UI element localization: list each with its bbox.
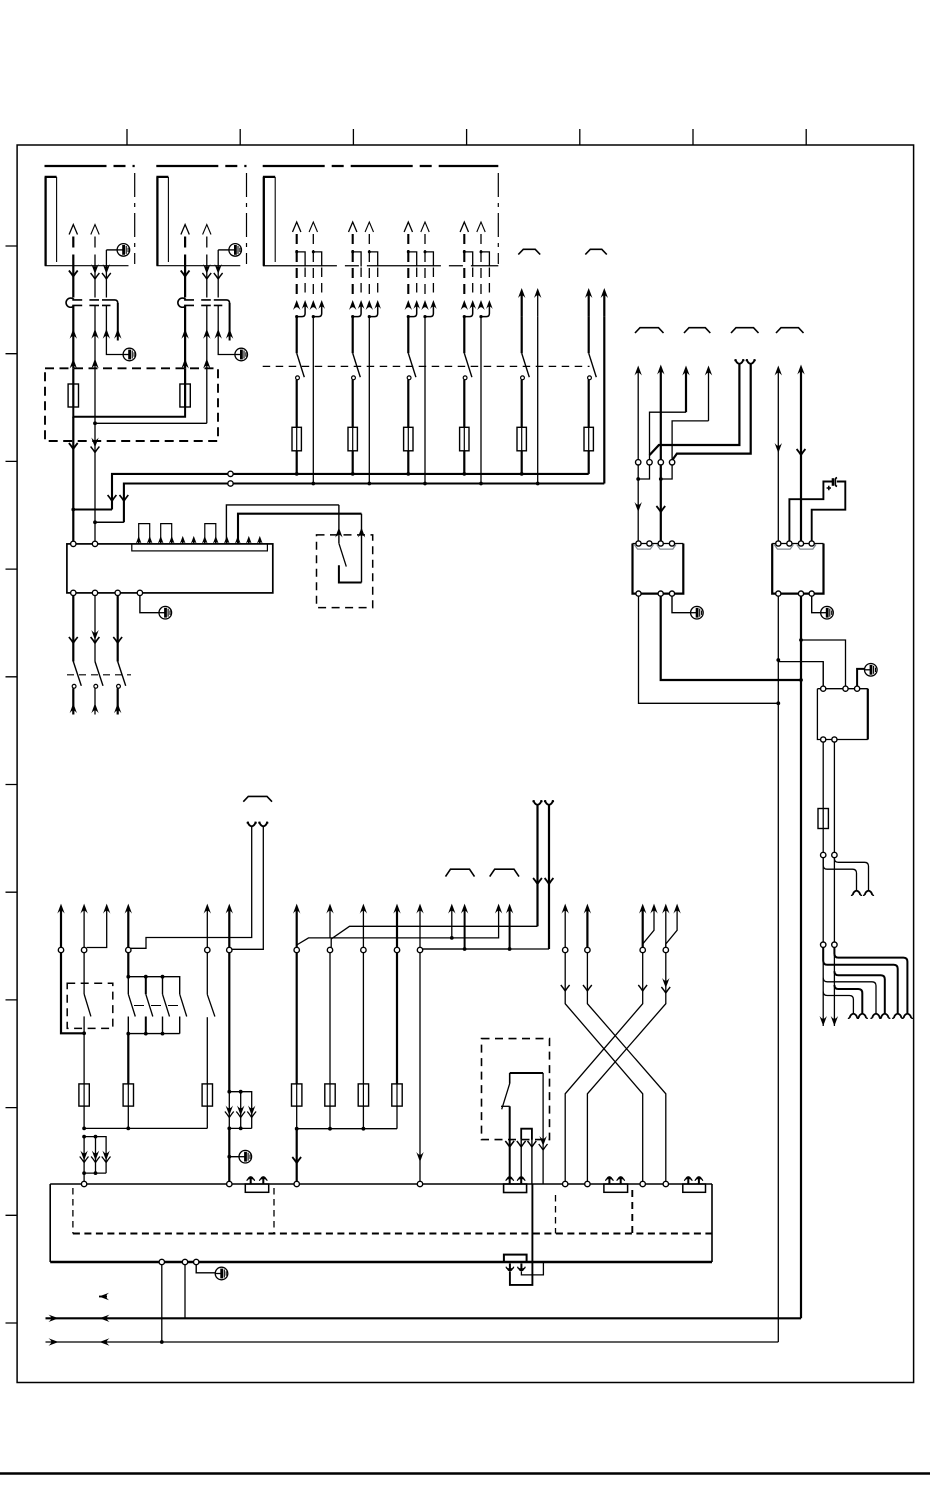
long wire corner to bottom bus thin bbox=[46, 1341, 779, 1343]
lamp feed wire dashed arrow 2 box 2 bbox=[203, 225, 211, 235]
crossover incoming arrow at x=565.2 bbox=[562, 904, 569, 914]
triple diode pack left bbox=[84, 1137, 106, 1174]
headlamp unit box 1 dash-dot outline bbox=[45, 165, 135, 167]
ECU top pin circles bbox=[81, 1181, 86, 1186]
bus link to junction block wire A bbox=[73, 509, 112, 511]
wire switch to fuse group 6 bbox=[588, 380, 590, 428]
fuse on wire 296 bbox=[292, 1084, 302, 1106]
wire 363 down to fuse bbox=[362, 953, 364, 1084]
fanout branch 1 bbox=[834, 947, 907, 1013]
wire 397 down to fuse bbox=[396, 953, 398, 1084]
incoming wire arrow at x=397 bbox=[393, 904, 400, 914]
ground G9 bbox=[239, 1150, 252, 1163]
relay R1 top pin circles bbox=[636, 541, 641, 546]
junction block top pin circles bbox=[71, 541, 76, 546]
output switch pole 3 bbox=[117, 596, 119, 662]
incoming wire arrow at x=128.3 bbox=[125, 904, 132, 914]
wire to relay2 pin3 bbox=[797, 365, 804, 375]
group 1 connector merge arrows bbox=[293, 300, 300, 310]
stub arrow 464 bbox=[464, 910, 466, 949]
wire switch to fuse group 1 bbox=[296, 380, 298, 428]
dimmer switch wires with arrows bbox=[338, 505, 340, 543]
pass-through wire loop 1 bbox=[510, 1184, 533, 1285]
relay R2 top pin circles bbox=[776, 541, 781, 546]
wire fuse to bus group 1 bbox=[296, 451, 298, 474]
ground G8 bbox=[865, 664, 878, 677]
relay1 feed wire a4 jog bbox=[705, 366, 712, 376]
dimmer dashed switch box bbox=[317, 535, 373, 608]
relay R1 bottom pin circles bbox=[636, 591, 641, 596]
fanout branch 2 bbox=[823, 947, 898, 1013]
relay R1 output wire thin bbox=[639, 596, 779, 703]
incoming wire arrow at x=420 bbox=[416, 904, 423, 914]
middle left connector circles bbox=[58, 947, 63, 952]
daytime relay switch output wire bbox=[509, 1106, 511, 1177]
lighting switch S4 bbox=[463, 317, 465, 354]
connector bracket relay pair 1 bbox=[635, 328, 664, 333]
wires with up arrows below connector box 1 bbox=[72, 305, 74, 368]
fuse on wire 128 bbox=[123, 1084, 133, 1106]
crossover wire 3 bbox=[565, 953, 643, 1181]
fork wire pair brackets middle bbox=[446, 869, 475, 876]
multi switch coupling ticks bbox=[134, 1005, 178, 1007]
fanout branch 5 bbox=[834, 985, 862, 1013]
crossover incoming arrow at x=665.8 bbox=[662, 904, 669, 914]
daytime relay right wire bbox=[542, 1073, 544, 1184]
fuse box dashed outline bbox=[45, 368, 218, 441]
ground G2 lower box 2 bbox=[235, 348, 248, 361]
relay1 feed wire a3 jog bbox=[682, 366, 689, 376]
fanout branch 6 bbox=[823, 992, 853, 1014]
right wire to lower bus group 2 bbox=[368, 317, 370, 484]
right column wire 2 bbox=[833, 742, 835, 852]
wire L2 fusebox to junction block bbox=[94, 441, 96, 541]
relay R1 output wire thick bbox=[661, 596, 801, 680]
wires with up arrows below connector box 2 bbox=[184, 305, 186, 368]
fork wire Y2 middle left bbox=[259, 822, 267, 827]
crossover wire 2 bbox=[587, 953, 665, 1181]
triple switch coupling dashed line bbox=[67, 674, 131, 676]
wire exits below box 2 with arrows bbox=[184, 266, 186, 298]
box3 group 1 dashed wires below box bbox=[296, 252, 298, 298]
ECU pin connector block 4 bbox=[684, 1176, 692, 1184]
bottom wire arrows thin bbox=[49, 1338, 59, 1345]
lamp feed wire dashed arrow 1 box 2 bbox=[181, 225, 189, 235]
ground wire to lower ground box 1 bbox=[106, 305, 123, 354]
ground G1 lower box 1 bbox=[123, 348, 136, 361]
right column end arrows bbox=[822, 947, 824, 1026]
wire to relay2 pin1 bbox=[775, 366, 782, 376]
subunit bottom pin circles bbox=[821, 737, 826, 742]
box3 group 3 dashed wires below box bbox=[407, 252, 409, 298]
wire 84 to control unit bbox=[83, 1173, 85, 1184]
left fuse output bus bbox=[84, 1106, 207, 1128]
wire to relay1 pin1 bbox=[637, 465, 639, 544]
ECU bottom connector block bbox=[504, 1255, 527, 1262]
fuse on wire 330 bbox=[325, 1084, 335, 1106]
fuse group 1 bbox=[292, 427, 301, 451]
headlamp unit box 3 dash-dot outline bbox=[263, 165, 499, 167]
bulb housing bar box 1 bbox=[45, 177, 57, 266]
incoming wire arrow at x=84.1 bbox=[80, 904, 87, 914]
wire 128.3 to multi switch bbox=[127, 953, 129, 977]
ground wire drop box 2 bbox=[217, 250, 219, 266]
pass-through wire loop 2 bbox=[521, 1262, 543, 1275]
ECU bottom pin circles bbox=[159, 1259, 164, 1264]
jog wire YA to circle 330 bbox=[331, 926, 537, 947]
ECU pin connector block 3 bbox=[606, 1176, 614, 1184]
lighting switch S1 bbox=[296, 317, 298, 354]
incoming wire arrow at x=229.3 bbox=[226, 904, 233, 914]
group 4 connector merge arrows bbox=[461, 300, 468, 310]
relay R2 bottom pin circles bbox=[776, 591, 781, 596]
lighting switch S5 bbox=[521, 317, 523, 354]
connector bracket middle left bbox=[243, 796, 272, 801]
inline connector symbol box 1 bbox=[66, 298, 74, 307]
right wire to lower bus group 1 bbox=[312, 317, 314, 484]
wire fuse to bus group 3 bbox=[407, 451, 409, 474]
fork wire YA middle bbox=[534, 800, 542, 805]
lamp feed wire dashed arrow 1 box 1 bbox=[69, 225, 77, 235]
wire switch to fuse group 2 bbox=[352, 380, 354, 428]
wire L1 fusebox to junction block bbox=[72, 441, 74, 541]
ground G6 bbox=[691, 606, 704, 619]
fork wire Y1 middle left bbox=[248, 822, 256, 827]
junction block bottom pin circles bbox=[71, 590, 76, 595]
connector branch stub wire box 1 bbox=[117, 303, 119, 341]
wire to subunit pin2 bbox=[801, 640, 846, 689]
multi contact switch poles bbox=[127, 977, 129, 995]
wire exits below box 1 with arrows bbox=[72, 266, 74, 298]
wire to relay1 pin3 bbox=[660, 465, 662, 544]
fork branch upper right 1 bbox=[834, 858, 868, 890]
crossover wire 1 bbox=[565, 953, 643, 1181]
ground G10 bbox=[215, 1267, 228, 1280]
lighting switch S3 bbox=[407, 317, 409, 354]
headlamp switch wire and lever bbox=[83, 953, 85, 994]
right wire to lower bus group 5 bbox=[537, 317, 539, 484]
right wire to lower bus group 3 bbox=[424, 317, 426, 484]
control unit ECU box bbox=[50, 1183, 712, 1185]
incoming wire arrow at x=330 bbox=[326, 904, 333, 914]
branch wire along y949 with stubs bbox=[423, 948, 510, 950]
wire L1 down through fuse box bbox=[72, 417, 74, 441]
battery B1 symbol bbox=[832, 478, 834, 486]
incoming wire arrow at x=207.3 bbox=[204, 904, 211, 914]
fuse F2 bbox=[184, 368, 186, 384]
inline connector symbol box 2 bbox=[178, 298, 186, 307]
box3 group 4 dashed feed wires with arrows bbox=[460, 222, 468, 232]
wire 420 to control unit bbox=[419, 953, 421, 1184]
bulb housing bar box 2 bbox=[156, 177, 168, 266]
relay1 feed wire a1 bbox=[635, 366, 642, 376]
relay unit R1 box bbox=[633, 543, 684, 545]
output switch pole 1 bbox=[72, 596, 74, 662]
right column connector circles mid bbox=[821, 852, 826, 857]
ground G1 upper in box 1 bbox=[106, 249, 117, 251]
lighting switch S2 bbox=[352, 317, 354, 354]
switch coupling dashed line bbox=[263, 365, 590, 367]
right wire to lower bus group 6 bbox=[603, 317, 605, 484]
bus link to junction block wire B bbox=[95, 521, 124, 523]
connector bracket relay pair 2 bbox=[684, 328, 710, 333]
fanout branch 4 bbox=[823, 978, 876, 1013]
relay1 feed wire a2 bbox=[657, 365, 664, 375]
fuse group 2 bbox=[348, 427, 357, 451]
thin wire bus in fuse box bbox=[95, 368, 207, 441]
wire to subunit pin1 bbox=[778, 662, 823, 689]
daytime relay switch lever bbox=[509, 1073, 511, 1084]
ECU pin connector block 1 bbox=[247, 1176, 255, 1184]
box3 group 2 hook branches bbox=[353, 252, 378, 267]
wire 229 to control unit with ground tap bbox=[228, 1128, 230, 1184]
fork branch upper right 2 bbox=[823, 858, 856, 890]
box3 group 2 dashed feed wires with arrows bbox=[349, 222, 357, 232]
wire 330 down to fuse bbox=[329, 953, 331, 1084]
single switch on wire 207.3 bbox=[206, 953, 208, 995]
fork terminal wire f1 to relay connector bbox=[736, 359, 744, 364]
branch wire from circle 296 with stubs bbox=[297, 910, 499, 945]
right column wires to lower connector bbox=[822, 858, 824, 942]
lower supply bus bbox=[124, 484, 604, 523]
wire switch to fuse group 3 bbox=[407, 380, 409, 428]
connector bracket group 5 bbox=[518, 249, 540, 254]
box3 group 1 hook branches bbox=[297, 252, 322, 267]
ground G7 bbox=[821, 606, 834, 619]
fuse output bus wire bbox=[73, 407, 185, 417]
stub arrow 451 bbox=[451, 910, 453, 938]
fuse F1 bbox=[72, 368, 74, 384]
fuse group 3 bbox=[404, 427, 413, 451]
crossover wire 4 bbox=[587, 953, 665, 1181]
ground wire drop box 1 bbox=[105, 250, 107, 266]
crossover branch arrows bbox=[650, 904, 657, 914]
wire from circle 61 to switch line bbox=[61, 953, 84, 1034]
output switch pole 2 bbox=[94, 596, 96, 662]
right column wire 1 with inline fuse bbox=[822, 742, 824, 852]
fuse group 5 bbox=[517, 427, 526, 451]
ECU output wire 2 down bbox=[184, 1265, 186, 1319]
junction block pin staples bbox=[139, 524, 150, 543]
wire switch to fuse group 5 bbox=[521, 380, 523, 428]
left edge tick marks bbox=[6, 246, 18, 1323]
relay R2 ground lead bbox=[812, 596, 821, 613]
ground wire to lower ground box 2 bbox=[218, 305, 235, 354]
ground G5 bbox=[159, 606, 172, 619]
bottom wire arrows thick bbox=[49, 1315, 59, 1322]
box3 group 3 dashed feed wires with arrows bbox=[404, 222, 412, 232]
crossover incoming arrow at x=587.4 bbox=[584, 904, 591, 914]
multi contact switch bus bottom bbox=[128, 1017, 179, 1034]
multi contact switch bus top bbox=[128, 977, 179, 995]
fuse on wire 363 bbox=[358, 1084, 368, 1106]
group 5 feed wires with arrows bbox=[518, 288, 525, 298]
lamp feed wire dashed arrow 2 box 1 bbox=[91, 225, 99, 235]
jog wire YB to circle 420 bbox=[423, 948, 549, 950]
incoming wire arrow at x=61 bbox=[57, 904, 64, 914]
junction block J/B box bbox=[67, 544, 273, 593]
ECU ground lead bbox=[196, 1265, 215, 1273]
long wire from relay R2 thin down right side bbox=[777, 596, 779, 1342]
wire fuse to bus group 6 bbox=[588, 451, 590, 474]
wire switch to fuse group 4 bbox=[463, 380, 465, 428]
relay R1 ground lead bbox=[672, 596, 691, 613]
incoming wire arrow at x=363.4 bbox=[360, 904, 367, 914]
floating continuation arrow bbox=[99, 1293, 109, 1300]
junction block pin arrows bbox=[136, 536, 142, 544]
wire 229.3 down bbox=[228, 953, 230, 1092]
fork wire YB middle bbox=[545, 800, 553, 805]
subunit box bbox=[817, 689, 867, 740]
relay unit R2 box bbox=[772, 543, 823, 545]
fuse on wire 207 bbox=[202, 1084, 212, 1106]
fuse group 6 bbox=[584, 427, 593, 451]
junction block internal connector strip bbox=[132, 544, 268, 551]
box3 group 4 dashed wires below box bbox=[463, 252, 465, 298]
connector bracket group 6 bbox=[585, 249, 607, 254]
subunit ground lead bbox=[857, 669, 865, 689]
relay R1 connector cups bbox=[634, 545, 653, 550]
dimmer switch contact loop bbox=[339, 565, 362, 582]
staple wires down bbox=[520, 1140, 522, 1177]
connector branch stub wire box 2 bbox=[229, 303, 231, 341]
wire fuse to bus group 4 bbox=[463, 451, 465, 474]
top edge tick marks bbox=[127, 129, 806, 145]
bottom separator rule bbox=[0, 1472, 930, 1475]
ECU internal dashed partitions bbox=[73, 1188, 556, 1234]
ECU pin connector block 2 bbox=[506, 1176, 514, 1184]
bus drop arrows bbox=[108, 495, 117, 501]
group 6 feed wires with arrows bbox=[585, 288, 592, 298]
wire 296 to control unit bbox=[296, 1129, 298, 1184]
headlamp switch dashed box bbox=[67, 983, 113, 1028]
lighting switch S6 bbox=[588, 317, 590, 354]
fuse right column bbox=[818, 809, 828, 829]
group 3 connector merge arrows bbox=[405, 300, 412, 310]
group 2 connector merge arrows bbox=[349, 300, 356, 310]
fuse on wire 84 bbox=[79, 1084, 89, 1106]
long wire from relay R2 thick down right side bbox=[800, 596, 802, 1318]
triple diode pack wire 229 bbox=[229, 1092, 251, 1129]
feed wire thin to pin 9 bbox=[226, 505, 339, 544]
subunit top pin circles bbox=[821, 686, 826, 691]
crossover connector circles bbox=[563, 947, 568, 952]
dimmer switch lever bbox=[339, 543, 346, 566]
feed wire thick to pin 10 bbox=[238, 514, 362, 544]
box3 group 3 hook branches bbox=[408, 252, 433, 267]
daytime relay staple jumper bbox=[521, 1129, 532, 1140]
ECU output wire 1 down bbox=[161, 1265, 163, 1342]
wire 128.3 below multi switch bbox=[127, 1034, 129, 1084]
relay1 connector jumpers below bbox=[638, 465, 672, 479]
box3 group 2 dashed wires below box bbox=[352, 252, 354, 298]
junction block ground lead bbox=[140, 596, 159, 613]
battery positive wire bbox=[789, 482, 832, 544]
stub arrow 509 bbox=[509, 910, 511, 949]
wire 296 down to fuse bbox=[296, 953, 298, 1084]
fuse on wire 397 bbox=[392, 1084, 402, 1106]
right fuse output bus bbox=[297, 1106, 397, 1129]
daytime relay internal bus bbox=[510, 1072, 543, 1074]
fanout branch 3 bbox=[834, 971, 884, 1013]
incoming wire arrow at x=106.7 bbox=[103, 904, 110, 914]
ground G2 upper in box 2 bbox=[218, 249, 229, 251]
bulb housing bar box 3 bbox=[263, 177, 275, 266]
box3 group 4 hook branches bbox=[464, 252, 489, 267]
connector bracket relay pair 3 bbox=[731, 328, 759, 333]
right column connector circles lower bbox=[821, 942, 826, 947]
fuse group 4 bbox=[460, 427, 469, 451]
daytime relay dashed box bbox=[482, 1039, 550, 1140]
wire fuse to bus group 2 bbox=[352, 451, 354, 474]
upper supply bus bbox=[112, 474, 589, 510]
battery negative wire bbox=[812, 482, 846, 544]
headlamp unit box 2 dash-dot outline bbox=[156, 165, 246, 167]
connector bracket relay pair 4 bbox=[776, 328, 804, 333]
box3 group 1 dashed feed wires with arrows bbox=[293, 222, 301, 232]
relay1 connector circles bbox=[636, 460, 641, 465]
fork terminal wire f2 to relay connector bbox=[747, 359, 755, 364]
middle right connector circles bbox=[294, 947, 299, 952]
relay R2 connector cups bbox=[774, 545, 793, 550]
incoming wire arrow at x=296.7 bbox=[293, 904, 300, 914]
right wire to lower bus group 4 bbox=[480, 317, 482, 484]
crossover incoming arrow at x=642.7 bbox=[639, 904, 646, 914]
wire fuse to bus group 5 bbox=[521, 451, 523, 474]
long wire corner to bottom bus thick bbox=[46, 1317, 802, 1319]
